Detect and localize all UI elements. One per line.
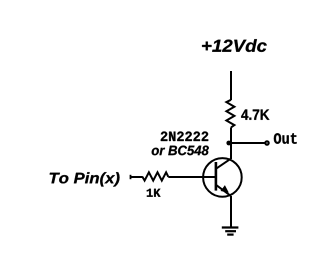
terminal Out (open circle): [265, 141, 268, 144]
input label To Pin(x): [50, 172, 120, 186]
junction dot collector node: [226, 141, 231, 146]
node label Out: [274, 133, 297, 144]
wire collector node down to transistor: [230, 143, 232, 159]
value label 4.7K: [241, 110, 269, 120]
transistor Q1 2N2222 (NPN): [203, 158, 242, 197]
wire input to resistor R2: [131, 176, 143, 178]
wire +12Vdc to resistor R1 top: [230, 71, 232, 100]
wire emitter to ground: [230, 196, 232, 228]
net +12Vdc label: [202, 39, 267, 52]
part label or BC548: [152, 146, 209, 156]
wire R2 to transistor base: [168, 176, 215, 178]
wire R1 bottom to collector node: [230, 127, 232, 143]
value label 1K: [147, 189, 161, 197]
resistor R1 4.7K (vertical zigzag): [226, 100, 234, 128]
wire node to Out terminal: [229, 142, 265, 144]
input terminal tick: [130, 175, 132, 179]
resistor R2 1K (horizontal zigzag): [142, 172, 168, 180]
ground: [222, 228, 239, 235]
part label 2N2222: [161, 132, 208, 142]
